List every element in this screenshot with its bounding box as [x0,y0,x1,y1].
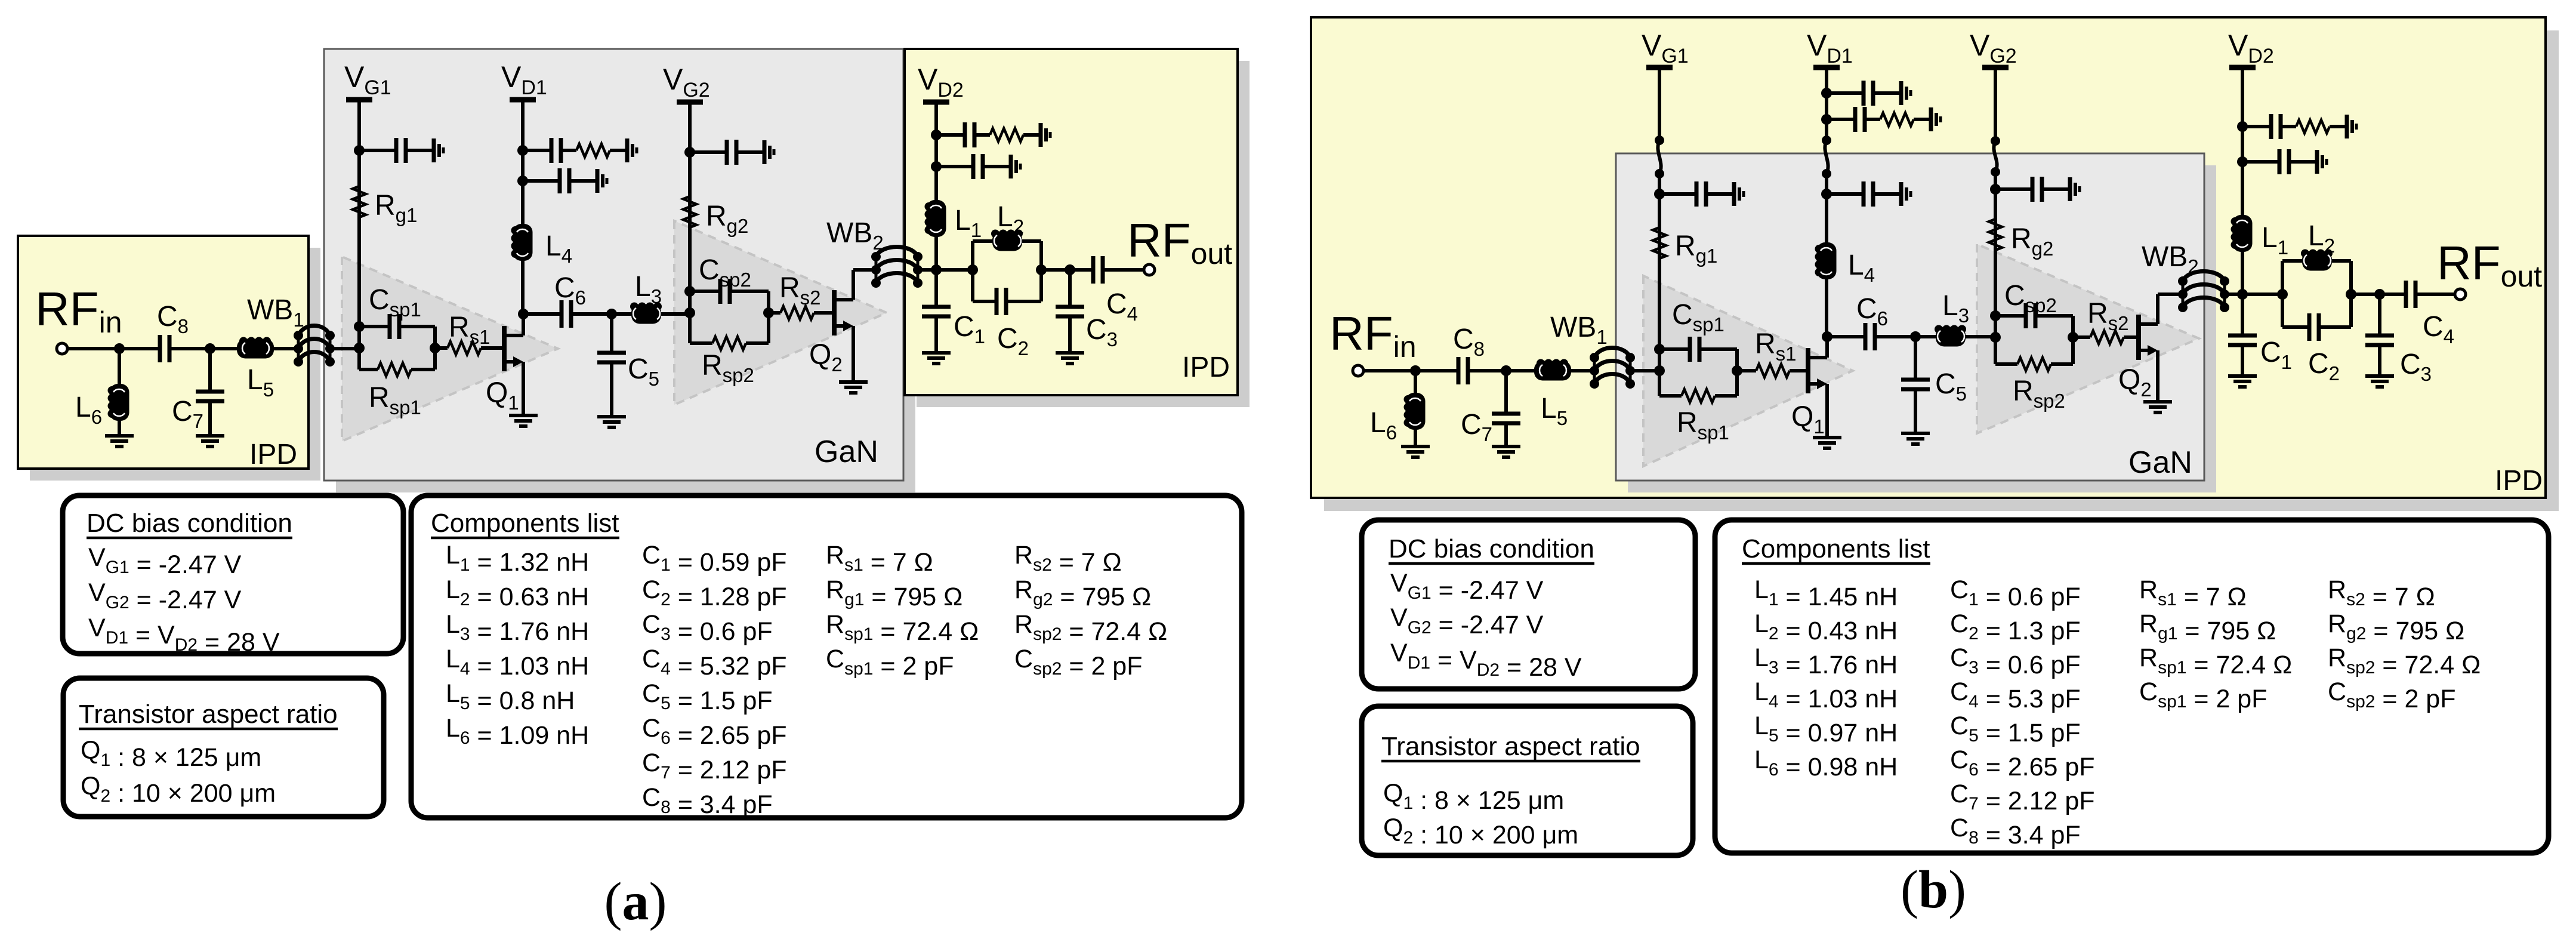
svg-text:Components list: Components list [431,509,619,538]
svg-text:DC bias condition: DC bias condition [87,509,292,538]
svg-text:(a): (a) [604,872,667,931]
svg-text:Transistor aspect ratio: Transistor aspect ratio [79,700,338,729]
svg-text:DC bias condition: DC bias condition [1389,534,1594,564]
svg-text:GaN: GaN [2128,445,2192,480]
svg-text:IPD: IPD [1182,352,1230,383]
svg-text:(b): (b) [1901,860,1966,919]
svg-text:Components list: Components list [1742,534,1930,564]
svg-text:Transistor aspect ratio: Transistor aspect ratio [1381,732,1640,761]
svg-text:GaN: GaN [815,435,878,469]
svg-text:IPD: IPD [249,439,297,470]
svg-text:IPD: IPD [2495,465,2543,497]
